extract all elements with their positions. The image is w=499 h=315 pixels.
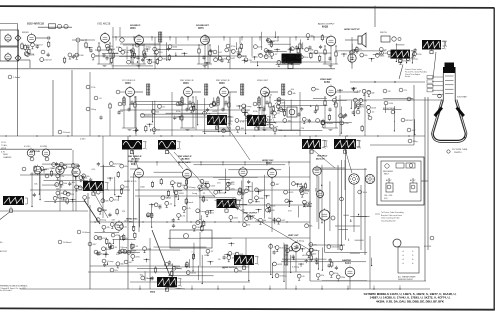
svg-text:VIDEO AMP: VIDEO AMP <box>320 78 332 81</box>
svg-text:470k: 470k <box>231 46 235 48</box>
svg-text:1ST VIDEO IF: 1ST VIDEO IF <box>122 80 136 82</box>
svg-text:1meg: 1meg <box>145 46 151 48</box>
svg-text:Touching Bracket: Touching Bracket <box>381 219 396 222</box>
svg-text:6AX4: 6AX4 <box>345 262 351 265</box>
svg-text:150mmf: 150mmf <box>44 60 52 62</box>
svg-text:.0015: .0015 <box>212 111 218 113</box>
svg-text:270k: 270k <box>91 87 95 89</box>
svg-text:3.3meg: 3.3meg <box>297 240 305 242</box>
svg-text:VOL: VOL <box>384 198 388 200</box>
svg-text:PICTURE TUBE: PICTURE TUBE <box>452 149 468 151</box>
svg-text:AJ 117: AJ 117 <box>386 179 391 182</box>
svg-text:Bracket. Tube must have: Bracket. Tube must have <box>381 214 402 217</box>
svg-text:Socket: Socket <box>405 75 411 78</box>
svg-text:3.3meg: 3.3meg <box>120 247 128 249</box>
svg-text:SOUND IF: SOUND IF <box>130 25 141 27</box>
svg-text:1meg: 1meg <box>289 55 295 57</box>
svg-text:BRIGHT: BRIGHT <box>406 120 414 122</box>
svg-text:3.3meg: 3.3meg <box>188 187 196 189</box>
svg-text:1meg: 1meg <box>79 187 85 189</box>
svg-text:2ND VIDEO IF: 2ND VIDEO IF <box>180 80 194 82</box>
svg-text:HTRS: HTRS <box>1 148 7 150</box>
svg-text:1meg: 1meg <box>304 190 310 192</box>
svg-text:500mmf: 500mmf <box>63 132 71 134</box>
svg-text:1meg: 1meg <box>192 193 198 195</box>
svg-text:.0015: .0015 <box>197 227 203 229</box>
svg-text:B102 4M RCLB: B102 4M RCLB <box>27 23 44 26</box>
svg-text:10 Mmmf: 10 Mmmf <box>82 232 91 234</box>
svg-text:WIDTH: WIDTH <box>380 32 387 34</box>
svg-text:4BZ6: 4BZ6 <box>183 82 189 85</box>
svg-text:SOUND DET: SOUND DET <box>196 25 210 27</box>
svg-text:1meg: 1meg <box>102 210 108 212</box>
svg-text:HORIZ OSC: HORIZ OSC <box>262 160 274 162</box>
svg-text:HORIZ OUTPUT: HORIZ OUTPUT <box>344 29 360 31</box>
svg-text:1meg: 1meg <box>281 106 287 108</box>
svg-text:FOCUS: FOCUS <box>424 246 432 248</box>
svg-text:6AU4: 6AU4 <box>150 291 156 294</box>
svg-text:6CB6: 6CB6 <box>324 82 331 84</box>
svg-text:4K384, U 2D, DA, DAU, DB, DBB,: 4K384, U 2D, DA, DAU, DB, DBB, DE, DBU, … <box>376 299 444 303</box>
svg-text:150mmf: 150mmf <box>35 45 43 47</box>
svg-text:1meg: 1meg <box>101 220 107 222</box>
svg-text:(A) 4BZ6: (A) 4BZ6 <box>181 157 190 160</box>
svg-text:.0015: .0015 <box>263 55 269 57</box>
svg-text:SOUND: SOUND <box>40 146 48 148</box>
svg-text:Outer Coating of Tube: Outer Coating of Tube <box>381 217 400 220</box>
svg-text:VIDEO DET: VIDEO DET <box>257 80 269 82</box>
svg-text:1.5mmf: 1.5mmf <box>13 77 21 79</box>
svg-text:WINDING RESIST.: WINDING RESIST. <box>398 279 414 281</box>
svg-text:3.3meg: 3.3meg <box>201 199 209 201</box>
svg-text:DEFL: DEFL <box>3 154 9 156</box>
svg-text:BRIGHTNESS: BRIGHTNESS <box>383 108 396 110</box>
svg-text:ION TRAP: ION TRAP <box>457 96 467 99</box>
svg-text:.0015: .0015 <box>311 254 317 256</box>
svg-text:1meg: 1meg <box>314 250 320 252</box>
svg-text:.0015: .0015 <box>277 264 283 266</box>
svg-text:100k: 100k <box>363 192 367 194</box>
svg-text:RECT: RECT <box>384 174 390 176</box>
svg-text:V101 4BC1B: V101 4BC1B <box>97 24 111 26</box>
svg-text:4BT6: 4BT6 <box>198 27 204 30</box>
svg-text:ON - OFF: ON - OFF <box>384 195 393 197</box>
svg-text:1meg: 1meg <box>114 199 120 201</box>
svg-text:150mmf: 150mmf <box>325 123 333 125</box>
svg-text:1Meg: 1Meg <box>413 141 418 143</box>
svg-text:BOOST: BOOST <box>0 251 8 253</box>
svg-text:4BZ6: 4BZ6 <box>125 82 131 85</box>
svg-text:4.5 MC: 4.5 MC <box>24 146 31 148</box>
svg-text:.0015: .0015 <box>371 107 377 109</box>
svg-text:4BZ6: 4BZ6 <box>219 82 225 85</box>
svg-text:MIXER: MIXER <box>22 32 29 34</box>
svg-text:(A) 4BZ6: (A) 4BZ6 <box>131 157 140 160</box>
svg-text:1meg: 1meg <box>246 106 252 108</box>
svg-text:3.3meg: 3.3meg <box>411 58 419 60</box>
svg-text:4M RCLB: 4M RCLB <box>30 150 40 153</box>
svg-text:HOR MULT: HOR MULT <box>317 156 328 158</box>
svg-text:.0015: .0015 <box>191 273 197 275</box>
svg-text:4BZ6: 4BZ6 <box>130 27 136 30</box>
svg-text:To Picture Tube Grounding: To Picture Tube Grounding <box>381 211 404 214</box>
svg-text:.0015: .0015 <box>302 255 308 257</box>
svg-text:4.5MC: 4.5MC <box>80 139 86 141</box>
svg-text:.0015: .0015 <box>179 193 185 195</box>
svg-text:CHASSIS: CHASSIS <box>3 156 12 159</box>
svg-text:250k: 250k <box>389 103 393 105</box>
svg-text:HORIZ HOLD: HORIZ HOLD <box>124 181 137 183</box>
svg-text:AUDIO OUTPUT: AUDIO OUTPUT <box>318 23 335 26</box>
svg-text:10k: 10k <box>81 40 84 42</box>
svg-text:21ATP4: 21ATP4 <box>454 151 462 154</box>
svg-text:6AQ5: 6AQ5 <box>322 26 329 29</box>
svg-text:1M: 1M <box>388 91 391 93</box>
svg-text:10 Mmmf: 10 Mmmf <box>63 242 72 244</box>
svg-text:.0015: .0015 <box>51 168 57 170</box>
svg-text:.0015: .0015 <box>288 192 294 194</box>
svg-text:.0015: .0015 <box>242 56 248 58</box>
svg-text:150mmf: 150mmf <box>239 120 247 122</box>
svg-text:TO ALL: TO ALL <box>1 144 7 147</box>
svg-text:47k: 47k <box>404 90 407 92</box>
svg-text:VERT OUT: VERT OUT <box>288 235 299 237</box>
svg-text:12.5V: 12.5V <box>1 142 7 144</box>
svg-text:AJ 117: AJ 117 <box>410 179 415 182</box>
svg-text:1Meg: 1Meg <box>91 109 96 111</box>
svg-text:150mmf: 150mmf <box>403 60 411 62</box>
svg-text:3RD VIDEO IF: 3RD VIDEO IF <box>216 80 230 82</box>
svg-text:HORIZ OUTPUT: HORIZ OUTPUT <box>222 267 238 269</box>
